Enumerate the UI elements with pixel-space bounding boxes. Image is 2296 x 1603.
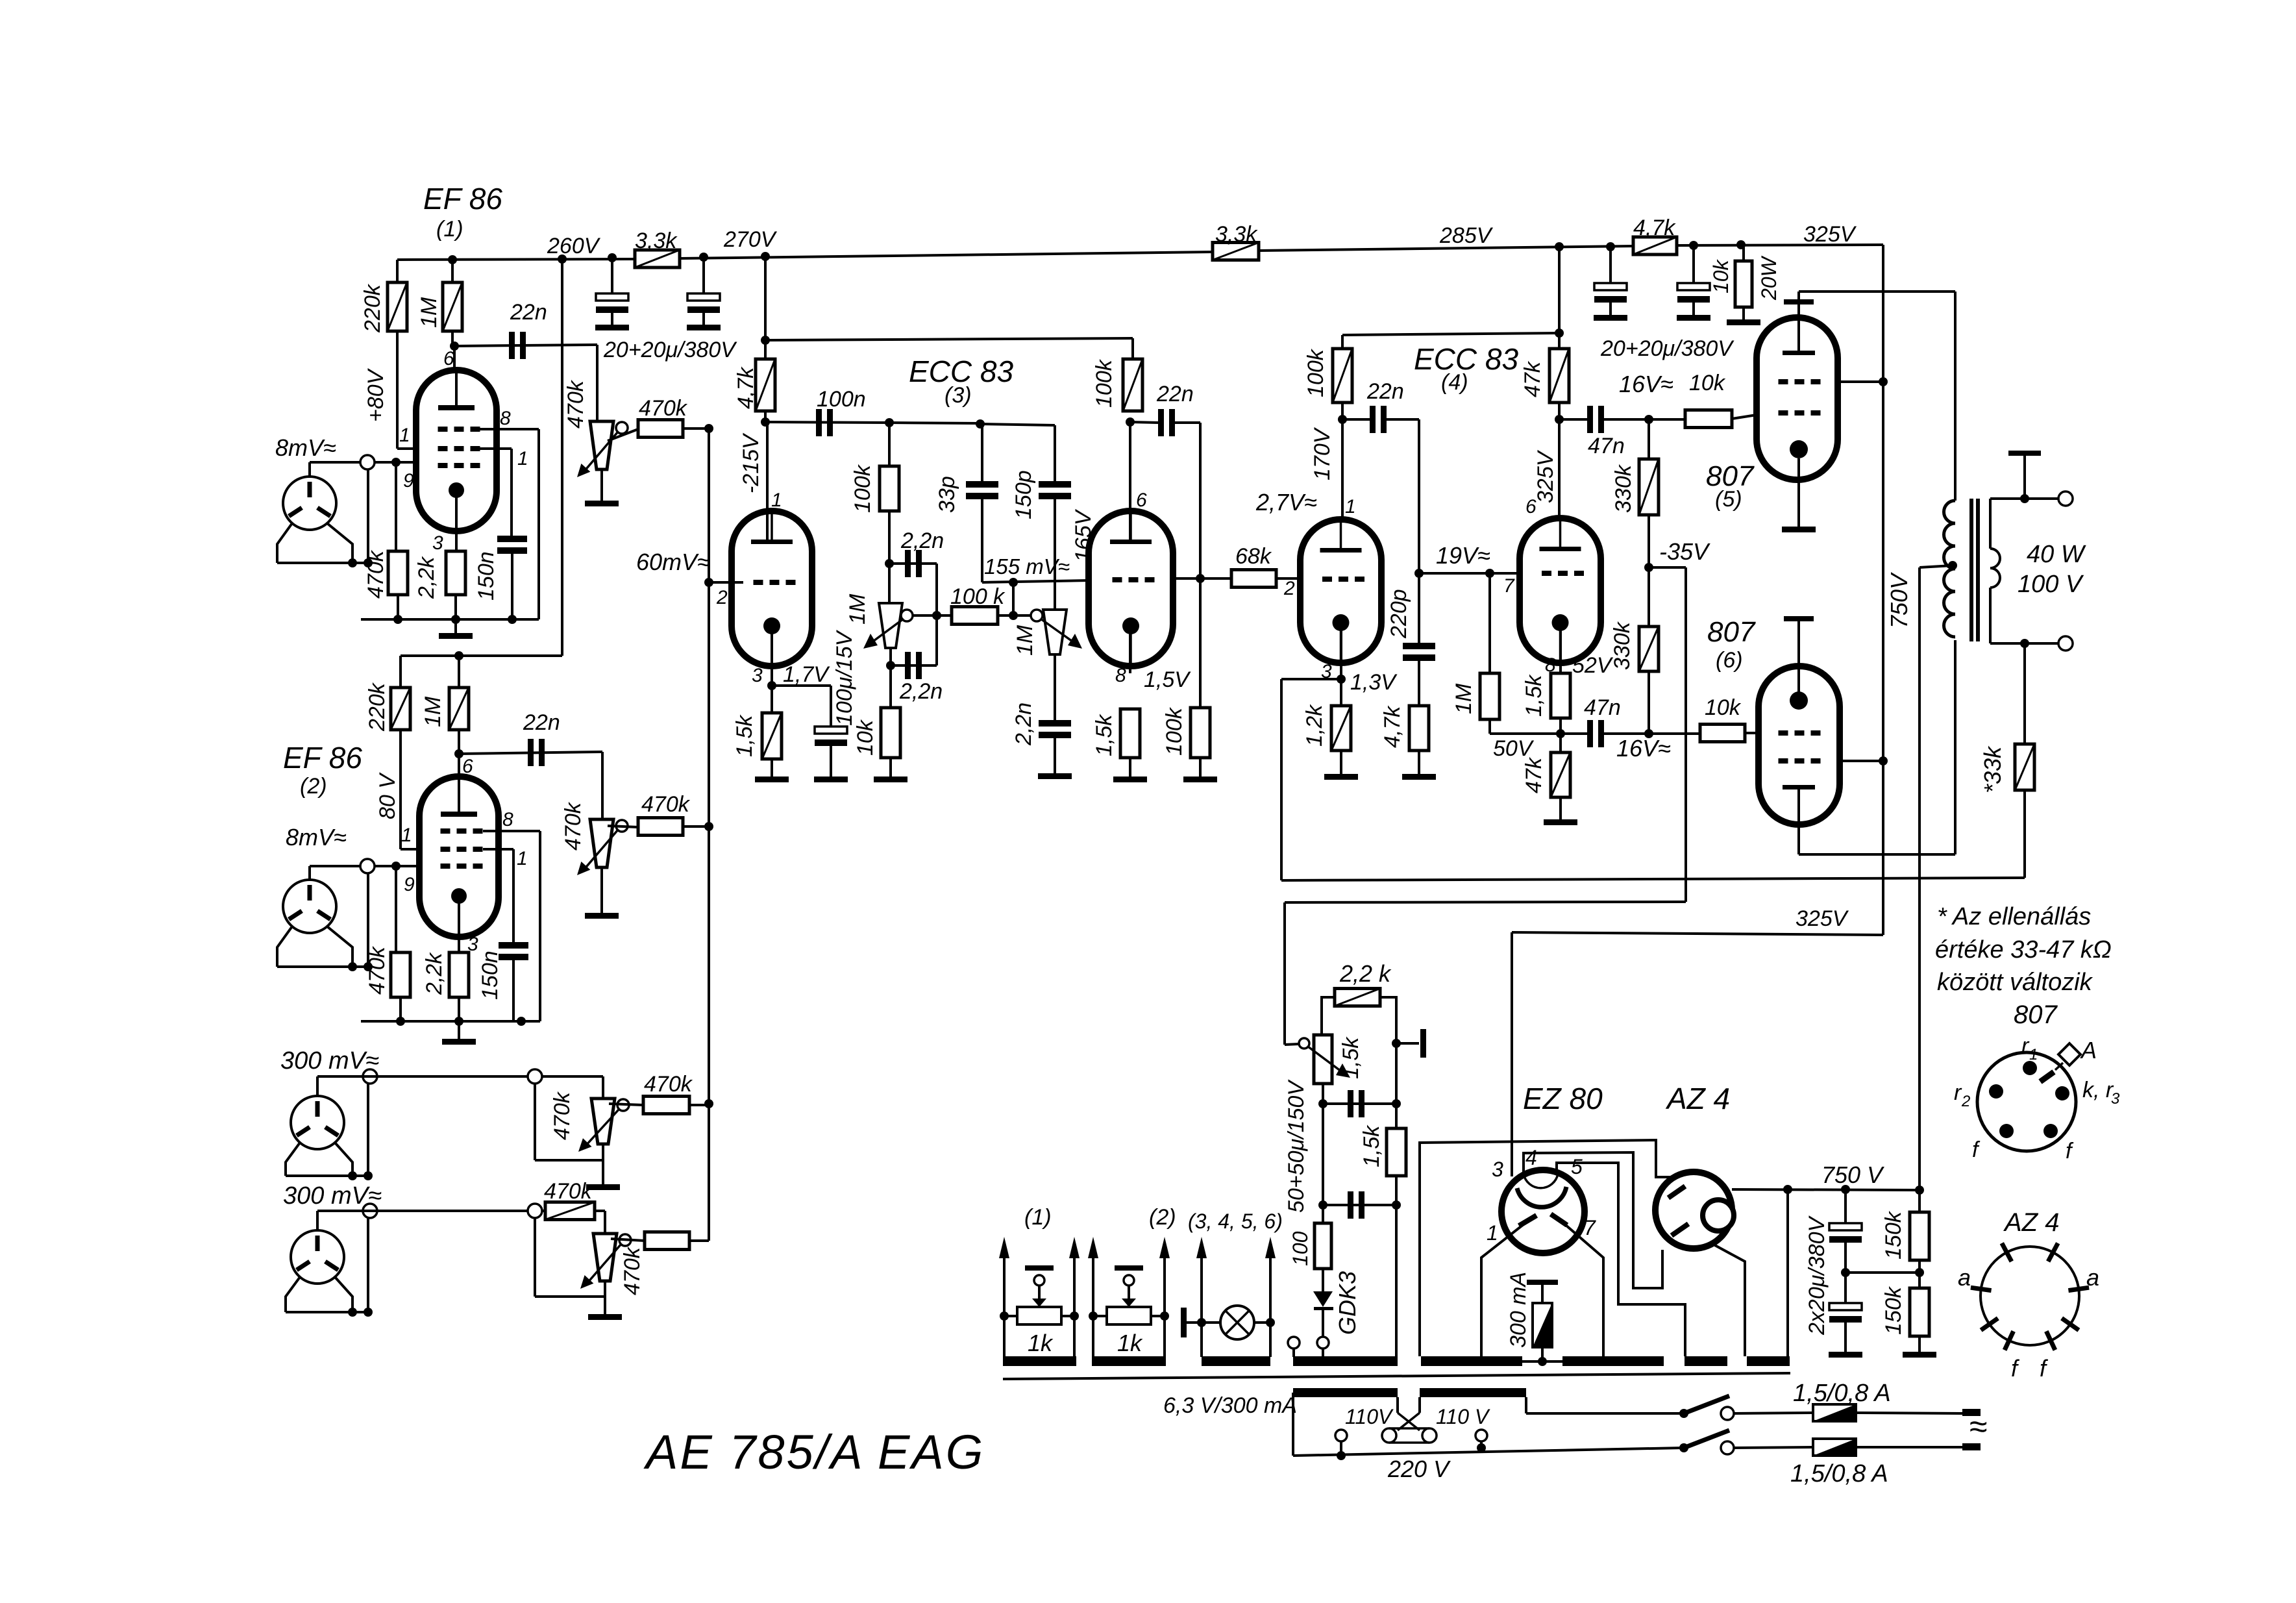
svg-text:(2): (2) <box>1149 1205 1176 1230</box>
svg-text:20+20μ/380V: 20+20μ/380V <box>603 338 737 362</box>
svg-text:1k: 1k <box>1028 1330 1054 1356</box>
svg-text:4,7k: 4,7k <box>1380 705 1405 748</box>
svg-text:19V≈: 19V≈ <box>1436 542 1490 569</box>
svg-text:220 V: 220 V <box>1387 1456 1451 1482</box>
svg-text:47k: 47k <box>1522 756 1546 793</box>
svg-text:1,5k: 1,5k <box>1339 1036 1363 1079</box>
svg-text:7: 7 <box>1503 575 1515 597</box>
svg-text:1: 1 <box>2029 1046 2038 1063</box>
svg-text:(1): (1) <box>436 217 463 242</box>
svg-text:1M: 1M <box>1451 683 1476 714</box>
svg-text:22n: 22n <box>1366 379 1404 404</box>
svg-text:5: 5 <box>1571 1155 1583 1178</box>
svg-text:6: 6 <box>462 756 473 777</box>
svg-text:(3): (3) <box>944 383 972 408</box>
svg-text:1: 1 <box>517 448 528 469</box>
svg-text:260V: 260V <box>547 234 601 258</box>
svg-text:47n: 47n <box>1584 695 1621 720</box>
svg-text:1: 1 <box>399 425 410 446</box>
svg-text:1,3V: 1,3V <box>1350 670 1398 695</box>
svg-text:2,2n: 2,2n <box>900 528 944 553</box>
svg-text:AZ 4: AZ 4 <box>1665 1082 1730 1115</box>
svg-text:3,3k: 3,3k <box>1215 222 1258 247</box>
svg-text:k, r: k, r <box>2082 1078 2114 1102</box>
svg-text:1M: 1M <box>417 297 441 328</box>
svg-text:AZ 4: AZ 4 <box>2003 1208 2059 1237</box>
svg-text:4: 4 <box>1525 1146 1537 1169</box>
svg-text:20+20μ/380V: 20+20μ/380V <box>1600 336 1734 361</box>
svg-text:80 V: 80 V <box>375 772 400 819</box>
svg-text:3,3k: 3,3k <box>635 229 678 253</box>
svg-text:EF 86: EF 86 <box>423 182 502 216</box>
svg-text:≈: ≈ <box>1969 1408 1987 1445</box>
svg-text:a: a <box>2086 1264 2099 1291</box>
svg-text:470k: 470k <box>364 549 388 599</box>
svg-text:1M: 1M <box>1013 625 1037 656</box>
svg-text:4,7k: 4,7k <box>1633 216 1676 240</box>
svg-text:50V: 50V <box>1493 736 1535 761</box>
svg-text:165V: 165V <box>1071 508 1096 562</box>
svg-text:47k: 47k <box>1520 360 1545 397</box>
svg-text:33p: 33p <box>935 476 959 513</box>
svg-text:470k: 470k <box>544 1179 593 1204</box>
svg-text:470k: 470k <box>639 396 688 421</box>
svg-text:300 mV≈: 300 mV≈ <box>280 1047 379 1075</box>
svg-text:1: 1 <box>1487 1221 1498 1245</box>
svg-text:*33k: *33k <box>1979 745 2006 793</box>
svg-text:470k: 470k <box>644 1072 693 1097</box>
svg-text:1M: 1M <box>845 593 870 625</box>
svg-text:2: 2 <box>716 587 728 608</box>
svg-text:100 k: 100 k <box>950 584 1006 609</box>
svg-text:értéke 33-47 kΩ: értéke 33-47 kΩ <box>1935 936 2112 963</box>
svg-text:9: 9 <box>403 470 414 491</box>
svg-text:22n: 22n <box>510 300 547 325</box>
svg-text:750 V: 750 V <box>1821 1162 1884 1188</box>
svg-text:GDK3: GDK3 <box>1334 1271 1361 1335</box>
svg-text:EZ 80: EZ 80 <box>1523 1082 1603 1115</box>
svg-text:155 mV≈: 155 mV≈ <box>984 554 1070 578</box>
svg-text:1: 1 <box>401 825 412 846</box>
svg-text:(6): (6) <box>1716 648 1743 673</box>
svg-text:150k: 150k <box>1881 1210 1906 1260</box>
svg-text:150n: 150n <box>474 551 499 601</box>
svg-text:100μ/15V: 100μ/15V <box>832 629 857 726</box>
svg-text:EF 86: EF 86 <box>283 741 362 775</box>
svg-text:1: 1 <box>517 848 528 869</box>
svg-text:3: 3 <box>752 665 763 686</box>
svg-text:-215V: -215V <box>739 432 763 493</box>
svg-text:100k: 100k <box>1303 348 1328 397</box>
svg-text:1: 1 <box>771 490 782 511</box>
svg-text:3: 3 <box>1492 1158 1503 1181</box>
svg-text:170V: 170V <box>1310 427 1335 480</box>
svg-text:2: 2 <box>1961 1093 1970 1110</box>
svg-text:60mV≈: 60mV≈ <box>636 549 710 575</box>
svg-text:között változik: között változik <box>1937 969 2093 996</box>
svg-text:(2): (2) <box>300 774 327 799</box>
svg-text:100k: 100k <box>1092 358 1117 408</box>
svg-text:8: 8 <box>1115 665 1126 686</box>
svg-text:470k: 470k <box>550 1091 574 1140</box>
svg-text:100k: 100k <box>1162 706 1187 756</box>
svg-text:220p: 220p <box>1387 589 1411 639</box>
svg-text:1,5k: 1,5k <box>1522 674 1546 717</box>
svg-text:110 V: 110 V <box>1436 1405 1490 1428</box>
svg-text:220k: 220k <box>360 283 385 333</box>
svg-text:8: 8 <box>500 408 511 429</box>
svg-text:1,2k: 1,2k <box>1302 704 1327 747</box>
svg-text:52V: 52V <box>1572 653 1614 678</box>
svg-text:2,2k: 2,2k <box>414 556 439 599</box>
svg-text:(4): (4) <box>1441 370 1468 395</box>
svg-text:325V: 325V <box>1533 449 1558 503</box>
svg-text:* Az ellenállás: * Az ellenállás <box>1937 903 2091 930</box>
svg-text:325V: 325V <box>1803 222 1857 247</box>
svg-text:750V: 750V <box>1886 572 1912 628</box>
svg-text:(3, 4, 5, 6): (3, 4, 5, 6) <box>1188 1210 1283 1233</box>
svg-text:150n: 150n <box>478 951 502 1000</box>
svg-text:68k: 68k <box>1235 544 1272 569</box>
svg-text:a: a <box>1958 1264 1971 1291</box>
svg-text:1,5/0,8 A: 1,5/0,8 A <box>1790 1460 1888 1487</box>
svg-text:470k: 470k <box>365 945 389 995</box>
svg-text:807: 807 <box>2014 1000 2058 1029</box>
svg-text:7: 7 <box>1584 1216 1596 1239</box>
svg-text:(1): (1) <box>1024 1205 1052 1230</box>
svg-text:2x20μ/380V: 2x20μ/380V <box>1805 1215 1829 1336</box>
svg-text:1,5k: 1,5k <box>1359 1125 1384 1167</box>
svg-text:10k: 10k <box>1689 371 1726 395</box>
svg-text:22n: 22n <box>1156 382 1194 406</box>
svg-text:A: A <box>2080 1037 2097 1063</box>
svg-text:8mV≈: 8mV≈ <box>275 434 336 461</box>
svg-text:2,2n: 2,2n <box>1011 702 1036 746</box>
svg-text:1,5k: 1,5k <box>732 714 757 757</box>
svg-text:AE 785/A: AE 785/A <box>643 1425 865 1479</box>
svg-text:470k: 470k <box>561 801 586 851</box>
svg-text:1,5k: 1,5k <box>1092 714 1117 756</box>
svg-text:270V: 270V <box>723 227 778 252</box>
svg-text:40 W: 40 W <box>2027 541 2086 568</box>
svg-text:470k: 470k <box>620 1246 645 1295</box>
svg-text:150p: 150p <box>1011 470 1036 519</box>
svg-text:1k: 1k <box>1117 1330 1143 1356</box>
svg-text:50+50μ/150V: 50+50μ/150V <box>1284 1079 1309 1213</box>
svg-text:6: 6 <box>443 348 454 369</box>
svg-text:10k: 10k <box>1705 695 1742 720</box>
svg-text:100n: 100n <box>817 387 866 412</box>
svg-text:9: 9 <box>404 874 415 895</box>
svg-text:1,5V: 1,5V <box>1144 667 1191 692</box>
svg-text:6: 6 <box>1136 490 1147 511</box>
svg-text:1M: 1M <box>421 696 445 727</box>
svg-text:2,7V≈: 2,7V≈ <box>1255 489 1317 516</box>
svg-text:3: 3 <box>467 934 478 955</box>
svg-text:470k: 470k <box>641 792 691 817</box>
svg-text:100: 100 <box>1289 1231 1312 1266</box>
svg-text:110V: 110V <box>1345 1405 1394 1428</box>
svg-text:100k: 100k <box>850 464 875 513</box>
svg-text:2,2k: 2,2k <box>422 952 447 995</box>
svg-text:-35V: -35V <box>1659 538 1710 565</box>
svg-text:285V: 285V <box>1439 223 1494 248</box>
svg-text:807: 807 <box>1707 616 1756 648</box>
svg-text:470k: 470k <box>563 379 588 429</box>
svg-text:330k: 330k <box>1611 464 1636 513</box>
svg-text:220k: 220k <box>365 682 389 732</box>
svg-text:1,7V: 1,7V <box>783 662 830 687</box>
svg-text:16V≈: 16V≈ <box>1616 735 1671 762</box>
svg-text:325V: 325V <box>1796 906 1849 931</box>
svg-text:22n: 22n <box>523 710 560 735</box>
svg-text:EAG: EAG <box>878 1425 985 1479</box>
svg-text:3: 3 <box>432 532 443 554</box>
svg-text:2,2 k: 2,2 k <box>1339 960 1392 987</box>
svg-text:6,3 V/300 mA: 6,3 V/300 mA <box>1163 1393 1297 1418</box>
svg-text:(5): (5) <box>1715 487 1742 512</box>
svg-text:330k: 330k <box>1610 621 1635 670</box>
svg-text:300 mA: 300 mA <box>1506 1272 1531 1348</box>
svg-text:2,2n: 2,2n <box>899 679 943 704</box>
svg-text:2: 2 <box>1283 578 1295 599</box>
svg-text:1: 1 <box>1345 496 1356 517</box>
svg-text:3: 3 <box>2111 1090 2120 1108</box>
svg-text:16V≈: 16V≈ <box>1619 371 1673 397</box>
svg-text:1,5/0,8 A: 1,5/0,8 A <box>1793 1380 1891 1407</box>
svg-text:4,7k: 4,7k <box>734 366 758 409</box>
svg-text:8: 8 <box>502 809 513 830</box>
svg-text:47n: 47n <box>1588 434 1625 458</box>
svg-text:10k: 10k <box>1709 258 1733 293</box>
svg-text:+80V: +80V <box>364 367 388 422</box>
svg-text:20W: 20W <box>1757 255 1781 301</box>
svg-text:150k: 150k <box>1881 1286 1906 1335</box>
svg-text:100 V: 100 V <box>2018 571 2084 598</box>
svg-text:8mV≈: 8mV≈ <box>286 824 347 851</box>
